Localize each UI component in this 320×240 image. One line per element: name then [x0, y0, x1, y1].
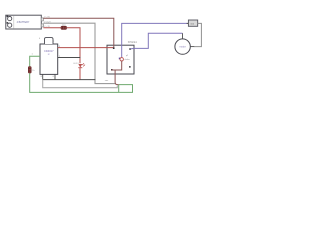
shake sensor S1 box: [107, 45, 134, 74]
IC U1 CD4017 body: [40, 44, 58, 74]
wire blue down into S1: [122, 23, 189, 57]
battery holder J1: [6, 15, 42, 29]
wire red LED to bus: [79, 68, 81, 80]
wire stub into switch left: [187, 22, 189, 24]
S1 pin bottom left: [111, 69, 113, 71]
wire green IC left pin: [30, 56, 40, 66]
wire red resistor to LED vertical: [67, 28, 80, 64]
wire brown S1 down to green junction: [115, 70, 119, 85]
S1 pin bottom right: [129, 66, 131, 68]
battery cell terminal circle top: [7, 16, 12, 21]
wire dark IC bottom pin stub 1: [42, 74, 44, 79]
wire red IC pin3 to shake box: [58, 47, 113, 49]
svg-text:motor: motor: [180, 46, 186, 49]
wire dark bottom bus: [43, 79, 96, 81]
svg-text:CD4017: CD4017: [44, 49, 54, 53]
wire green R2 down and across bottom: [30, 73, 133, 92]
svg-text:shake: shake: [124, 59, 130, 61]
svg-text:4 BATTERY: 4 BATTERY: [17, 21, 30, 24]
wire brown battery+ to shake box: [43, 18, 113, 47]
battery tab pin 2: [41, 24, 43, 27]
LED LED1: [78, 63, 85, 67]
motor M1: [175, 33, 194, 54]
switch S2: [188, 20, 197, 26]
wire gray2 IC pin to junction: [43, 80, 118, 88]
blue pin tick: [119, 58, 121, 60]
IC U1 top notch: [45, 38, 54, 44]
wire gray battery mid down to bottom: [43, 23, 115, 83]
wire dark IC pin7 to red vertical: [58, 57, 81, 59]
S1 pin top left: [113, 47, 115, 49]
battery cell terminal circle bottom: [7, 22, 12, 27]
battery tab pin 1: [41, 18, 43, 21]
svg-text:LED1: LED1: [73, 63, 79, 65]
wire red battery to resistor: [43, 27, 61, 29]
S1 pin top right: [129, 48, 131, 50]
wire dark IC bottom pin stub 2: [54, 74, 56, 79]
wire green junction down leg: [118, 85, 120, 93]
resistor R1: [61, 26, 67, 29]
svg-text:SHAKE1: SHAKE1: [128, 41, 138, 44]
wire blue S1 right pin to motor top: [131, 33, 183, 49]
shake contact circle: [120, 58, 123, 61]
wire brown from circle to pin: [111, 61, 122, 70]
resistor R2: [28, 67, 31, 74]
wire gray switch to motor: [194, 23, 201, 46]
